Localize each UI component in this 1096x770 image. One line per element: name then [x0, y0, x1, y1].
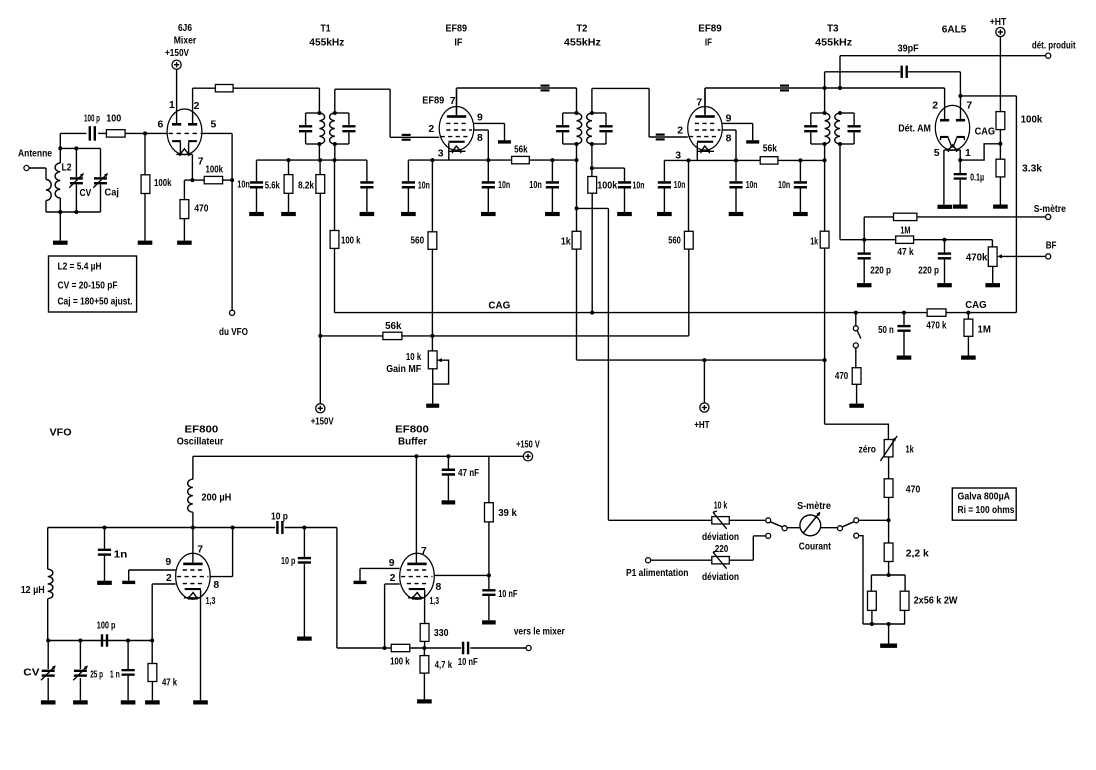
svg-text:EF800: EF800: [395, 425, 429, 436]
svg-text:IF: IF: [454, 38, 462, 49]
svg-text:2: 2: [677, 126, 683, 137]
svg-text:6J6: 6J6: [178, 23, 192, 34]
svg-text:Mixer: Mixer: [174, 36, 197, 47]
svg-text:BF: BF: [1046, 241, 1057, 252]
svg-text:470: 470: [906, 484, 921, 495]
svg-text:6: 6: [158, 120, 164, 131]
svg-text:CV = 20-150 pF: CV = 20-150 pF: [58, 281, 118, 292]
svg-text:0.1µ: 0.1µ: [970, 172, 984, 183]
svg-text:455kHz: 455kHz: [564, 38, 601, 49]
svg-text:10 k: 10 k: [714, 501, 728, 512]
svg-text:IF: IF: [705, 38, 712, 49]
svg-text:56k: 56k: [514, 144, 528, 155]
svg-text:100 k: 100 k: [341, 236, 361, 247]
svg-text:2: 2: [194, 101, 200, 112]
svg-text:9: 9: [726, 114, 732, 125]
svg-text:+150V: +150V: [311, 417, 334, 428]
svg-text:47 nF: 47 nF: [458, 468, 479, 479]
svg-text:1: 1: [169, 100, 175, 111]
svg-text:1k: 1k: [810, 237, 818, 248]
svg-text:Caj: Caj: [105, 188, 120, 199]
svg-text:vers le mixer: vers le mixer: [514, 626, 565, 637]
svg-text:Caj = 180+50 ajust.: Caj = 180+50 ajust.: [58, 297, 133, 308]
svg-text:CAG: CAG: [975, 127, 996, 138]
svg-text:Antenne: Antenne: [18, 149, 52, 160]
svg-text:10 nF: 10 nF: [458, 657, 478, 668]
svg-text:47 k: 47 k: [162, 677, 177, 688]
svg-text:10n: 10n: [237, 180, 250, 191]
svg-text:Dét. AM: Dét. AM: [898, 124, 931, 135]
svg-text:10n: 10n: [746, 180, 758, 191]
svg-text:10n: 10n: [498, 180, 510, 191]
svg-text:CAG: CAG: [488, 301, 510, 312]
svg-text:2: 2: [932, 101, 938, 112]
svg-text:zéro: zéro: [859, 445, 877, 456]
svg-text:2: 2: [428, 124, 434, 135]
svg-text:100k: 100k: [597, 181, 617, 192]
svg-text:2x56 k 2W: 2x56 k 2W: [914, 596, 958, 607]
svg-text:5: 5: [211, 120, 217, 131]
svg-text:100: 100: [106, 114, 121, 125]
svg-text:3: 3: [438, 149, 444, 160]
svg-text:5: 5: [934, 148, 940, 159]
svg-text:8: 8: [477, 133, 483, 144]
svg-text:200 µH: 200 µH: [201, 493, 231, 504]
svg-text:2,2 k: 2,2 k: [906, 548, 929, 559]
svg-text:EF89: EF89: [446, 24, 468, 35]
svg-text:220 p: 220 p: [870, 265, 891, 276]
svg-text:47 k: 47 k: [897, 247, 913, 258]
svg-text:+HT: +HT: [990, 17, 1007, 28]
svg-text:dét. produit: dét. produit: [1032, 41, 1076, 52]
svg-text:10 k: 10 k: [406, 352, 421, 363]
svg-text:5.6k: 5.6k: [265, 181, 280, 192]
svg-text:470k: 470k: [966, 252, 988, 263]
svg-text:1k: 1k: [561, 237, 571, 248]
svg-text:L2 = 5.4 µH: L2 = 5.4 µH: [58, 262, 102, 273]
svg-text:T3: T3: [827, 24, 839, 35]
svg-text:+150 V: +150 V: [516, 440, 540, 451]
svg-text:3: 3: [675, 151, 681, 162]
svg-text:8.2k: 8.2k: [298, 181, 314, 192]
svg-text:2: 2: [390, 573, 396, 584]
svg-text:1M: 1M: [978, 324, 991, 335]
svg-text:56k: 56k: [763, 144, 777, 155]
svg-text:du VFO: du VFO: [219, 327, 248, 338]
svg-text:CV: CV: [23, 668, 39, 679]
svg-text:1k: 1k: [906, 445, 914, 456]
svg-text:220 p: 220 p: [918, 265, 939, 276]
svg-text:10n: 10n: [778, 180, 790, 191]
svg-text:10n: 10n: [633, 181, 645, 192]
svg-text:100 p: 100 p: [97, 621, 116, 632]
svg-text:100 p: 100 p: [84, 114, 100, 125]
svg-text:EF89: EF89: [698, 24, 722, 35]
svg-text:1n: 1n: [114, 550, 128, 561]
svg-text:9: 9: [165, 557, 171, 568]
svg-text:Courant: Courant: [799, 542, 832, 553]
svg-text:7: 7: [696, 98, 702, 109]
svg-text:EF89: EF89: [422, 96, 444, 107]
svg-text:1M: 1M: [900, 226, 910, 237]
svg-text:1,3: 1,3: [430, 596, 440, 607]
svg-text:4,7 k: 4,7 k: [435, 660, 453, 671]
svg-text:1,3: 1,3: [206, 596, 216, 607]
svg-text:8: 8: [726, 134, 732, 145]
svg-text:Gain MF: Gain MF: [386, 364, 421, 375]
svg-text:T2: T2: [576, 24, 587, 35]
svg-text:10n: 10n: [529, 180, 542, 191]
svg-text:L2: L2: [62, 163, 72, 174]
svg-text:10 p: 10 p: [271, 512, 288, 523]
svg-text:50 n: 50 n: [878, 325, 894, 336]
svg-text:+HT: +HT: [694, 420, 710, 431]
svg-text:220: 220: [715, 544, 729, 555]
svg-text:100k: 100k: [154, 178, 172, 189]
svg-text:7: 7: [197, 545, 203, 556]
svg-text:10n: 10n: [674, 180, 686, 191]
svg-text:1: 1: [965, 148, 971, 159]
svg-text:39pF: 39pF: [898, 44, 919, 55]
svg-text:1 n: 1 n: [110, 670, 120, 681]
svg-text:déviation: déviation: [702, 532, 739, 543]
svg-text:25 p: 25 p: [90, 670, 103, 681]
svg-text:S-mètre: S-mètre: [797, 501, 831, 512]
svg-text:VFO: VFO: [50, 428, 72, 439]
svg-text:P1 alimentation: P1 alimentation: [626, 568, 688, 579]
svg-text:9: 9: [389, 558, 395, 569]
svg-text:100 k: 100 k: [390, 657, 410, 668]
svg-text:7: 7: [450, 96, 456, 107]
svg-text:EF800: EF800: [185, 425, 219, 436]
svg-text:déviation: déviation: [702, 572, 739, 583]
svg-text:T1: T1: [321, 24, 331, 35]
svg-text:455kHz: 455kHz: [309, 38, 344, 49]
svg-text:8: 8: [436, 582, 442, 593]
svg-text:2: 2: [166, 573, 172, 584]
svg-text:100k: 100k: [1021, 115, 1043, 126]
svg-text:7: 7: [198, 157, 204, 168]
svg-text:Ri = 100 ohms: Ri = 100 ohms: [958, 505, 1015, 516]
svg-text:8: 8: [213, 580, 219, 591]
svg-text:100k: 100k: [206, 165, 224, 176]
svg-text:470 k: 470 k: [926, 321, 946, 332]
svg-text:10n: 10n: [418, 180, 430, 191]
svg-text:7: 7: [421, 546, 427, 557]
svg-text:3.3k: 3.3k: [1022, 164, 1042, 175]
svg-text:Galva 800µA: Galva 800µA: [958, 492, 1011, 503]
svg-text:330: 330: [434, 628, 449, 639]
svg-text:+150V: +150V: [165, 48, 189, 59]
svg-text:10 p: 10 p: [281, 556, 295, 567]
svg-text:39 k: 39 k: [498, 508, 517, 519]
svg-text:470: 470: [194, 204, 208, 215]
svg-text:Oscillateur: Oscillateur: [177, 437, 224, 448]
svg-text:12 µH: 12 µH: [21, 585, 45, 596]
svg-text:S-mètre: S-mètre: [1034, 204, 1066, 215]
svg-text:9: 9: [477, 113, 483, 124]
svg-text:10 nF: 10 nF: [498, 589, 517, 600]
svg-text:7: 7: [966, 101, 972, 112]
svg-text:CAG: CAG: [965, 300, 986, 311]
svg-text:455kHz: 455kHz: [815, 38, 852, 49]
svg-text:Buffer: Buffer: [398, 437, 427, 448]
svg-text:560: 560: [411, 236, 425, 247]
svg-text:CV: CV: [80, 188, 92, 199]
svg-text:6AL5: 6AL5: [942, 25, 967, 36]
svg-text:470: 470: [835, 371, 848, 382]
svg-text:56k: 56k: [385, 321, 402, 332]
svg-text:560: 560: [668, 236, 681, 247]
